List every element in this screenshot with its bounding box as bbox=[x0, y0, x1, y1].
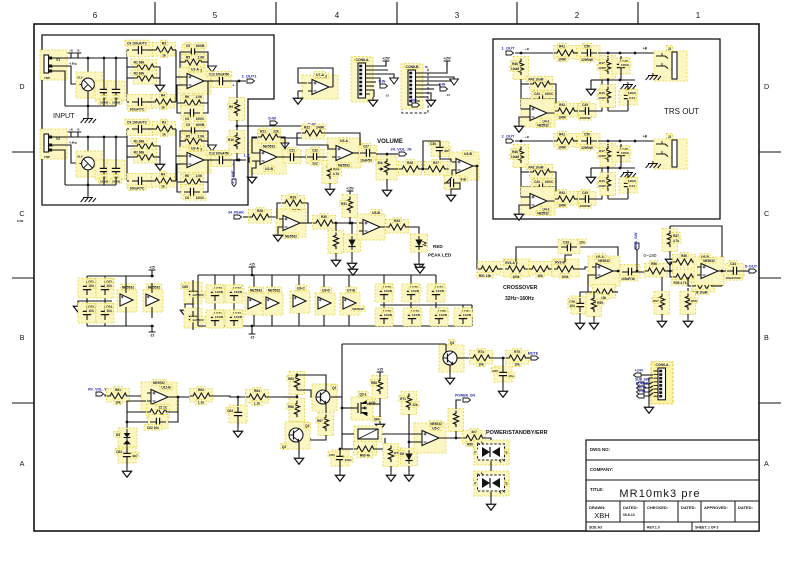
svg-text:30k: 30k bbox=[377, 161, 383, 165]
svg-text:MR10mk3 pre: MR10mk3 pre bbox=[619, 488, 700, 500]
svg-text:R3: R3 bbox=[162, 42, 166, 46]
svg-text:R29: R29 bbox=[290, 195, 296, 199]
tube/shell circle 1 bbox=[76, 72, 102, 98]
capacitor C66 electrolytic bbox=[184, 308, 206, 328]
feedback resistor R42 ch2 bbox=[526, 164, 553, 178]
wire top 2 bbox=[515, 135, 553, 142]
capacitor C9 ch1 bbox=[125, 40, 153, 56]
wire to LED bbox=[405, 227, 419, 235]
wire 1 bbox=[573, 52, 580, 54]
op-amp input wire ch1 bbox=[519, 109, 529, 123]
svg-text:R58: R58 bbox=[691, 299, 697, 303]
transistor Q2 bbox=[281, 422, 311, 449]
svg-text:100uF/TC: 100uF/TC bbox=[130, 107, 145, 111]
svg-text:D: D bbox=[19, 82, 24, 91]
svg-text:5: 5 bbox=[213, 11, 218, 20]
svg-text:R43: R43 bbox=[559, 191, 565, 195]
wire upper branch bbox=[670, 262, 700, 271]
svg-text:2.0K: 2.0K bbox=[196, 95, 203, 99]
svg-text:TRS OUT: TRS OUT bbox=[664, 107, 699, 116]
capacitor C65 electrolytic bbox=[181, 282, 206, 304]
wire bbox=[185, 280, 193, 312]
resistor R63 bbox=[190, 387, 213, 405]
net label SUB_SW b bbox=[635, 378, 649, 386]
svg-text:R35 4.7k: R35 4.7k bbox=[674, 281, 687, 285]
transistor Q1 bbox=[312, 384, 338, 411]
U5-A feedback wires bbox=[277, 203, 308, 223]
resistor R64 bbox=[246, 388, 269, 406]
svg-text:R47: R47 bbox=[599, 149, 605, 153]
CON8-A P-IN flag bbox=[379, 80, 388, 88]
potentiometer RV2-A bbox=[503, 259, 530, 279]
output wire ch2 bbox=[547, 199, 559, 201]
svg-text:C34: C34 bbox=[730, 262, 736, 266]
resistor R30 bbox=[313, 214, 336, 229]
svg-text:R63: R63 bbox=[198, 388, 204, 392]
capacitor C75 bbox=[375, 284, 394, 302]
svg-text:100R: 100R bbox=[558, 146, 566, 150]
svg-text:R74: R74 bbox=[478, 350, 484, 354]
capacitor C81 bbox=[454, 308, 473, 326]
resistor R28 bbox=[249, 208, 272, 223]
svg-text:R27: R27 bbox=[433, 161, 439, 165]
svg-text:22 1C: 22 1C bbox=[159, 406, 168, 410]
ground C65 bbox=[180, 307, 189, 316]
red peak LED D3 bbox=[411, 234, 428, 252]
resistor R32 to ground bbox=[328, 223, 344, 266]
op-amp input wire ch2 bbox=[519, 197, 529, 211]
relay K1 bbox=[342, 426, 400, 442]
svg-text:-15: -15 bbox=[150, 334, 155, 338]
svg-text:-15: -15 bbox=[385, 93, 389, 97]
svg-text:104: 104 bbox=[88, 284, 94, 288]
net label POWER_ON bbox=[455, 394, 475, 402]
svg-text:2_OUT: 2_OUT bbox=[502, 134, 515, 139]
resistor R41 ch1 bbox=[554, 43, 577, 62]
svg-text:B: B bbox=[20, 333, 25, 342]
capacitor C78 bbox=[375, 308, 394, 326]
net label MUTE b bbox=[637, 386, 647, 394]
XLR connector V2 bbox=[40, 129, 67, 159]
svg-text:U7-B: U7-B bbox=[347, 289, 355, 293]
resistor R37 pullup bbox=[662, 229, 681, 252]
svg-text:J1: J1 bbox=[668, 47, 672, 51]
wire divider bbox=[283, 372, 298, 428]
wire output bbox=[439, 437, 466, 440]
resistor R36 upper bbox=[673, 253, 696, 268]
resistor R4 ch1 bbox=[152, 92, 175, 110]
svg-text:SIZE:A3: SIZE:A3 bbox=[589, 526, 602, 530]
capacitor C44 ch1 bbox=[608, 86, 638, 111]
svg-text:CROSSOVER: CROSSOVER bbox=[503, 285, 538, 291]
svg-text:2_OUT1: 2_OUT1 bbox=[241, 74, 257, 79]
wire bbox=[419, 168, 427, 170]
svg-text:104/B: 104/B bbox=[234, 290, 243, 294]
svg-text:-15: -15 bbox=[446, 93, 450, 97]
capacitor C63 bbox=[78, 303, 96, 323]
svg-text:1k: 1k bbox=[161, 185, 165, 189]
svg-text:100uF/16: 100uF/16 bbox=[621, 277, 635, 281]
op-amp U1 ch1 bbox=[179, 66, 211, 94]
wire 1b bbox=[574, 110, 579, 112]
Q2 ground bbox=[294, 442, 303, 464]
power ground marker ch1 bbox=[208, 66, 217, 72]
R24 ground bbox=[325, 183, 334, 195]
svg-text:RV2-B: RV2-B bbox=[555, 261, 565, 265]
net label 2_LINE bbox=[230, 170, 236, 187]
U2-B power marker bbox=[281, 143, 289, 148]
svg-text:R57: R57 bbox=[653, 299, 659, 303]
net label MUTE bbox=[528, 352, 539, 360]
svg-text:R66: R66 bbox=[288, 405, 294, 409]
buffer U8-B bbox=[143, 283, 163, 318]
svg-text:SLV: SLV bbox=[77, 75, 82, 79]
resistor R3 ch1 bbox=[153, 40, 176, 58]
wire sum bbox=[236, 81, 268, 150]
capacitor C48 ch1 bbox=[612, 56, 631, 80]
svg-text:U3-A: U3-A bbox=[340, 139, 348, 143]
svg-text:C9 100uF/TC: C9 100uF/TC bbox=[127, 42, 148, 46]
resistor R74 bbox=[470, 349, 493, 367]
svg-text:S: S bbox=[505, 482, 507, 486]
wire to Q1 bbox=[297, 390, 316, 397]
svg-text:Q4: Q4 bbox=[450, 341, 454, 345]
svg-text:NE5532: NE5532 bbox=[250, 289, 262, 293]
wire bbox=[489, 357, 509, 360]
ground drop right bbox=[415, 264, 424, 273]
op-amp U5-A bbox=[276, 206, 306, 239]
net label 34_PEAK bbox=[228, 211, 244, 219]
chassis ground mid ch2 bbox=[621, 170, 636, 177]
svg-text:100R: 100R bbox=[598, 66, 606, 70]
coupling capacitor C21 bbox=[283, 147, 301, 163]
svg-text:P-IN: P-IN bbox=[639, 390, 646, 394]
U3-B feedback capacitor C30 bbox=[429, 141, 451, 157]
CON9 ground bbox=[644, 400, 653, 413]
CON8-B wires bbox=[420, 81, 452, 97]
VOLUME text bbox=[377, 139, 403, 145]
wire bbox=[613, 270, 622, 272]
capacitor C11 ch2 bbox=[127, 174, 153, 191]
svg-text:R21: R21 bbox=[260, 129, 266, 133]
capacitor C47 ch1 bbox=[578, 102, 596, 120]
feedback capacitor C6 ch2 bbox=[181, 185, 206, 201]
svg-text:4: 4 bbox=[335, 11, 340, 20]
buffer ground bbox=[293, 95, 302, 104]
svg-text:4.7k: 4.7k bbox=[673, 239, 679, 243]
svg-text:32Hz~160Hz: 32Hz~160Hz bbox=[505, 296, 535, 302]
wire bbox=[528, 268, 533, 270]
wire rows23 bbox=[127, 67, 160, 82]
svg-text:J1: J1 bbox=[668, 135, 672, 139]
title block text bbox=[589, 447, 753, 530]
svg-text:C13 100uF/50: C13 100uF/50 bbox=[209, 152, 230, 156]
svg-text:10k: 10k bbox=[478, 363, 484, 367]
svg-text:R45: R45 bbox=[599, 179, 605, 183]
svg-text:NE5532: NE5532 bbox=[703, 259, 715, 263]
net label 2_OUT bbox=[502, 134, 515, 143]
CON8-B +15 wire bbox=[420, 56, 452, 73]
power taps +B -B bbox=[68, 48, 82, 65]
svg-text:P-IN: P-IN bbox=[379, 80, 386, 84]
capacitor C74 bbox=[225, 310, 244, 328]
wire node B bbox=[664, 270, 676, 273]
svg-text:2.0K: 2.0K bbox=[198, 135, 206, 139]
svg-text:DATED:: DATED: bbox=[623, 505, 638, 510]
svg-text:100u: 100u bbox=[344, 458, 351, 462]
svg-text:D5: D5 bbox=[116, 433, 120, 437]
svg-text:100R: 100R bbox=[558, 116, 566, 120]
ground mid ch2 bbox=[155, 161, 164, 170]
capacitor C44 ch2 bbox=[608, 174, 638, 199]
ground mid ch1 bbox=[155, 82, 164, 91]
mid rail ch1 bbox=[591, 79, 635, 82]
CON8-A signal wire bbox=[370, 74, 398, 84]
svg-text:R36: R36 bbox=[681, 254, 687, 258]
CON8-B signal wire bbox=[420, 77, 458, 85]
resistor R47 ch2 bbox=[597, 144, 616, 169]
svg-text:104/B: 104/B bbox=[215, 315, 224, 319]
wire opamp out bbox=[168, 396, 193, 399]
svg-text:R5: R5 bbox=[186, 135, 190, 139]
svg-text:CON8-B: CON8-B bbox=[406, 65, 420, 69]
wire 2 bbox=[573, 140, 580, 142]
svg-text:4n7: 4n7 bbox=[471, 430, 477, 434]
svg-text:INPUT: INPUT bbox=[53, 111, 75, 120]
svg-text:CON8-A: CON8-A bbox=[356, 58, 370, 62]
svg-text:CON9-A: CON9-A bbox=[656, 363, 670, 367]
resistor R52 bbox=[529, 262, 552, 278]
svg-text:+B: +B bbox=[69, 48, 73, 52]
svg-text:+15: +15 bbox=[377, 367, 383, 371]
wire bbox=[353, 152, 361, 154]
svg-text:1: 1 bbox=[696, 11, 701, 20]
svg-text:100k: 100k bbox=[561, 275, 568, 279]
wire volume output down bbox=[473, 165, 481, 269]
capacitor C7 ch2 bbox=[95, 160, 113, 184]
ground left group bbox=[73, 303, 82, 312]
svg-text:C84: C84 bbox=[227, 409, 233, 413]
svg-text:R33: R33 bbox=[394, 219, 400, 223]
op-amp U6-B bbox=[694, 254, 724, 286]
svg-text:10uM: 10uM bbox=[511, 155, 519, 159]
op-amp U3-B bbox=[449, 151, 479, 182]
net label +24V bbox=[634, 369, 644, 377]
svg-text:RV_VOL_W: RV_VOL_W bbox=[88, 388, 108, 392]
svg-text:104/B: 104/B bbox=[439, 313, 448, 317]
svg-text:B: B bbox=[764, 333, 769, 342]
svg-text:104/B: 104/B bbox=[215, 290, 224, 294]
resistor R2 ch2 bbox=[131, 149, 157, 163]
wire bbox=[367, 398, 380, 414]
wire bbox=[380, 226, 389, 228]
svg-text:U5-C: U5-C bbox=[432, 427, 440, 431]
resistor R71 bbox=[399, 392, 419, 415]
U2-B feedback resistor R21 bbox=[258, 128, 281, 143]
ground mid ch2 bbox=[586, 168, 595, 183]
resistor R1 ch1 bbox=[131, 59, 157, 73]
capacitor C77 bbox=[427, 284, 446, 302]
svg-text:MIC: MIC bbox=[411, 99, 418, 103]
svg-text:R56: R56 bbox=[651, 262, 657, 266]
wire row4 bbox=[127, 180, 176, 182]
wire bbox=[490, 461, 492, 472]
CON9 wire top bbox=[641, 374, 653, 376]
row letters D C B A (sides) bbox=[17, 82, 769, 468]
feedback capacitor C6 ch1 bbox=[181, 106, 206, 122]
svg-text:1k: 1k bbox=[161, 106, 165, 110]
-15 feed middle bbox=[249, 325, 256, 340]
svg-text:100uF/TC: 100uF/TC bbox=[130, 186, 145, 190]
resistor R33 bbox=[386, 218, 409, 233]
svg-text:100R: 100R bbox=[598, 184, 606, 188]
op-amp input wires ch2 bbox=[176, 156, 183, 164]
capacitor C33 bbox=[558, 239, 586, 254]
connector CON9 bbox=[651, 362, 673, 404]
svg-text:R28: R28 bbox=[257, 209, 263, 213]
chassis ground mid ch1 bbox=[621, 82, 636, 89]
svg-text:05-6-13: 05-6-13 bbox=[623, 513, 635, 517]
wire bbox=[243, 216, 252, 218]
svg-text:REV:1.0: REV:1.0 bbox=[647, 526, 660, 530]
svg-text:104/B: 104/B bbox=[234, 315, 243, 319]
capacitor C64 bbox=[96, 303, 114, 323]
svg-text:+15V: +15V bbox=[346, 186, 354, 190]
feedback resistor ch1 bbox=[182, 54, 207, 68]
svg-text:2.0K: 2.0K bbox=[196, 174, 203, 178]
feedback below wires ch2 bbox=[177, 160, 208, 192]
capacitor C62 bbox=[96, 278, 114, 298]
svg-text:SLV: SLV bbox=[77, 154, 82, 158]
svg-text:R42 10uM: R42 10uM bbox=[529, 78, 544, 82]
wire long vertical bbox=[331, 344, 342, 449]
resistor R3 ch2 bbox=[153, 119, 176, 137]
svg-text:-B: -B bbox=[77, 48, 80, 52]
svg-text:3: 3 bbox=[455, 11, 460, 20]
wire bbox=[300, 222, 316, 224]
border zone tick marks bbox=[12, 2, 781, 403]
svg-text:34_PEAK: 34_PEAK bbox=[228, 211, 244, 215]
diode D2 bbox=[344, 223, 361, 269]
U11 feedback resistor R62 bbox=[147, 404, 171, 418]
connector CON8-B bbox=[401, 64, 423, 110]
resistor R43 ch1 bbox=[555, 102, 578, 120]
op-amp input wires ch1 bbox=[176, 77, 183, 85]
U6-A feedback resistor bbox=[591, 285, 616, 300]
resistor R35 lower bbox=[671, 270, 696, 286]
svg-text:Q2: Q2 bbox=[282, 445, 286, 449]
resistor R47 ch1 bbox=[597, 56, 616, 81]
wire bbox=[497, 268, 505, 270]
net label POWER b bbox=[636, 382, 649, 390]
op-amp U4 ch2 bbox=[521, 187, 555, 216]
net label P-IN b bbox=[637, 390, 646, 398]
svg-text:XBH: XBH bbox=[594, 511, 609, 520]
-15 feed left bbox=[149, 325, 156, 338]
svg-text:R51 10k: R51 10k bbox=[479, 274, 492, 278]
svg-text:R9: R9 bbox=[229, 105, 233, 109]
+15 feed left bbox=[149, 265, 156, 277]
capacitor C50 ch1 bbox=[578, 43, 600, 62]
wire bbox=[490, 492, 492, 501]
mid rail ch2 bbox=[591, 167, 635, 170]
output wire ch2 bbox=[204, 159, 246, 167]
feedback wires ch1 bbox=[180, 52, 208, 81]
LED ground bbox=[414, 252, 423, 270]
svg-text:2: 2 bbox=[575, 11, 580, 20]
capacitor C80 bbox=[430, 308, 449, 326]
op-amp U4 ch1 bbox=[521, 99, 555, 128]
svg-text:4u7: 4u7 bbox=[132, 454, 138, 458]
svg-text:NE5532: NE5532 bbox=[148, 286, 160, 290]
capacitor C61 bbox=[78, 278, 96, 298]
buffer U10-A bbox=[340, 287, 365, 315]
resistor R65 upper bbox=[287, 372, 305, 395]
svg-text:100/B: 100/B bbox=[196, 44, 205, 48]
resistor R27 bbox=[425, 160, 448, 175]
op-amp U2-B bbox=[250, 140, 286, 174]
CROSSOVER text bbox=[503, 285, 538, 302]
RED PEAK LED text bbox=[428, 244, 452, 258]
TRS OUT section box bbox=[493, 39, 720, 219]
wire to pot bbox=[376, 153, 398, 160]
volume potentiometer RV1 bbox=[376, 156, 397, 180]
capacitor C8 ch2 bbox=[107, 160, 125, 184]
U3-A feedback wires bbox=[297, 133, 360, 153]
net label 24_VOL_IN bbox=[390, 147, 411, 156]
svg-text:100/C: 100/C bbox=[621, 151, 630, 155]
svg-text:R41: R41 bbox=[559, 45, 565, 49]
wire row1 bbox=[127, 50, 176, 102]
svg-text:+15: +15 bbox=[249, 262, 255, 266]
output capacitor C27 bbox=[358, 143, 377, 162]
feedback capacitor ch1 bbox=[182, 43, 206, 59]
U3-A feedback resistor R22 bbox=[302, 124, 326, 139]
feedback resistor R42 ch1 bbox=[526, 76, 553, 90]
svg-text:104/B: 104/B bbox=[436, 289, 445, 293]
svg-text:U2-B: U2-B bbox=[265, 167, 273, 171]
svg-text:C43: C43 bbox=[534, 92, 540, 96]
svg-text:100R: 100R bbox=[558, 204, 566, 208]
+15 feed middle bbox=[249, 262, 256, 276]
svg-text:R2 68k: R2 68k bbox=[134, 150, 145, 154]
svg-text:U2-A: U2-A bbox=[191, 146, 199, 150]
wire bbox=[573, 267, 592, 269]
wire bbox=[718, 270, 729, 273]
POWER/STANDBY/ERR text bbox=[486, 430, 548, 436]
op-amp U3-A bbox=[327, 138, 361, 169]
resistor R73 bbox=[463, 429, 486, 447]
mosfet Q3 bbox=[341, 391, 373, 420]
wire caps bbox=[65, 57, 117, 116]
svg-text:R64: R64 bbox=[254, 389, 260, 393]
zener diode pair D5 bbox=[114, 428, 137, 447]
wire bbox=[525, 357, 531, 359]
svg-text:C85: C85 bbox=[329, 453, 335, 457]
feedback resistor R6 ch2 bbox=[181, 173, 205, 188]
op-amp U11-B bbox=[141, 380, 177, 412]
svg-text:U3-B: U3-B bbox=[464, 152, 472, 156]
svg-text:R61: R61 bbox=[115, 388, 121, 392]
capacitor C11 ch1 bbox=[127, 95, 153, 112]
connector CON8-A bbox=[351, 57, 373, 103]
feedback resistor ch2 bbox=[182, 133, 207, 147]
svg-text:DRAWN:: DRAWN: bbox=[589, 505, 605, 510]
wire up ch2 bbox=[595, 168, 602, 199]
capacitor C34 bbox=[723, 261, 744, 280]
R37 wires bbox=[665, 226, 722, 271]
R40 divider ch2 bbox=[510, 145, 529, 168]
